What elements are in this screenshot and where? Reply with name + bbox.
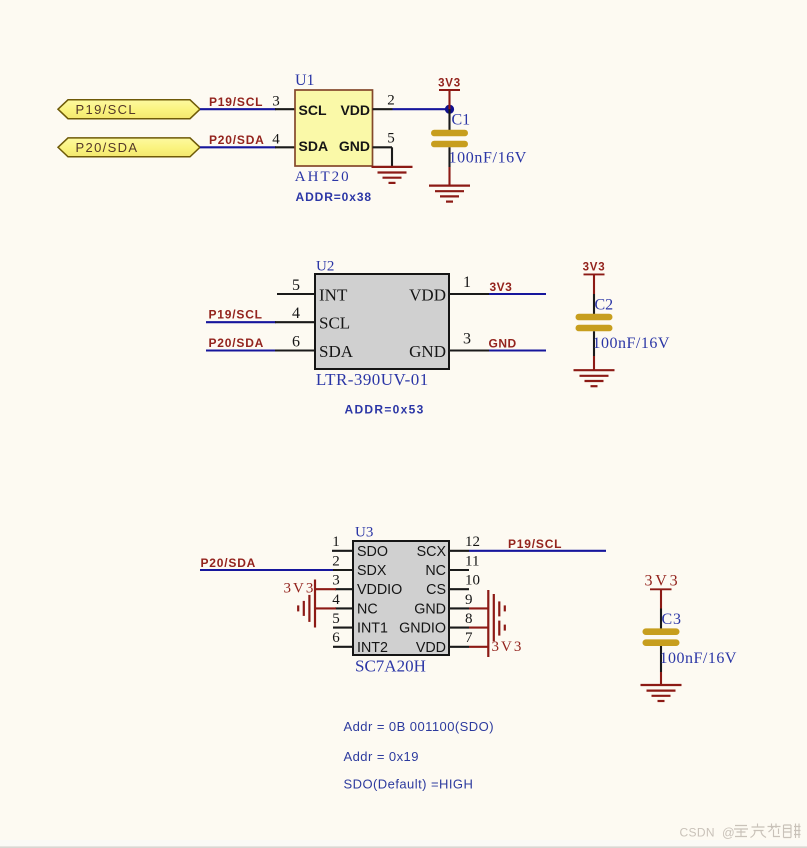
svg-text:LTR-390UV-01: LTR-390UV-01	[316, 370, 429, 389]
svg-text:3: 3	[463, 331, 471, 348]
svg-text:GNDIO: GNDIO	[399, 621, 446, 637]
svg-text:GND: GND	[489, 337, 517, 351]
svg-text:P19/SCL: P19/SCL	[209, 95, 263, 109]
svg-text:3: 3	[332, 573, 340, 589]
svg-text:8: 8	[465, 611, 473, 627]
svg-text:VDD: VDD	[409, 286, 446, 305]
svg-text:@: @	[722, 826, 735, 840]
svg-text:5: 5	[332, 611, 340, 627]
svg-text:CS: CS	[426, 582, 446, 598]
svg-text:12: 12	[465, 534, 480, 550]
svg-text:VDD: VDD	[416, 640, 446, 656]
svg-text:Addr = 0x19: Addr = 0x19	[344, 749, 419, 764]
svg-text:11: 11	[465, 553, 479, 569]
svg-text:NC: NC	[425, 563, 446, 579]
svg-text:SDA: SDA	[299, 138, 329, 154]
svg-text:3V3: 3V3	[492, 639, 524, 655]
svg-text:C1: C1	[452, 112, 471, 129]
svg-text:2: 2	[332, 553, 340, 569]
svg-text:5: 5	[387, 130, 395, 146]
svg-text:SDA: SDA	[319, 342, 354, 361]
svg-text:3V3: 3V3	[583, 262, 606, 274]
svg-text:P20/SDA: P20/SDA	[209, 336, 265, 350]
svg-text:10: 10	[465, 573, 480, 589]
svg-text:SC7A20H: SC7A20H	[355, 657, 426, 676]
svg-text:4: 4	[332, 592, 340, 608]
svg-text:C3: C3	[662, 611, 682, 628]
svg-text:3: 3	[272, 94, 280, 110]
svg-text:P20/SDA: P20/SDA	[76, 140, 139, 155]
svg-text:VDDIO: VDDIO	[357, 582, 402, 598]
svg-text:P19/SCL: P19/SCL	[209, 308, 263, 322]
svg-text:GND: GND	[414, 601, 446, 617]
svg-text:3V3: 3V3	[645, 573, 681, 590]
svg-text:3V3: 3V3	[438, 77, 461, 89]
svg-text:SCX: SCX	[417, 544, 447, 560]
svg-text:100nF/16V: 100nF/16V	[449, 150, 527, 167]
svg-text:5: 5	[292, 277, 300, 294]
svg-text:SDO: SDO	[357, 544, 388, 560]
svg-text:P20/SDA: P20/SDA	[201, 556, 257, 570]
svg-text:7: 7	[465, 630, 473, 646]
svg-text:VDD: VDD	[340, 102, 370, 118]
svg-text:P19/SCL: P19/SCL	[508, 537, 562, 551]
svg-text:3V3: 3V3	[490, 280, 513, 294]
svg-text:SCL: SCL	[319, 314, 350, 333]
svg-text:INT2: INT2	[357, 640, 388, 656]
svg-text:SDX: SDX	[357, 563, 387, 579]
svg-text:AHT20: AHT20	[295, 169, 351, 185]
svg-text:INT: INT	[319, 286, 348, 305]
svg-text:CSDN: CSDN	[680, 826, 715, 840]
svg-text:SDO(Default) =HIGH: SDO(Default) =HIGH	[344, 777, 474, 792]
svg-text:GND: GND	[409, 342, 446, 361]
svg-text:4: 4	[292, 305, 300, 322]
svg-text:6: 6	[292, 334, 300, 351]
svg-text:100nF/16V: 100nF/16V	[593, 335, 670, 352]
svg-text:INT1: INT1	[357, 621, 388, 637]
svg-text:9: 9	[465, 592, 473, 608]
svg-text:P19/SCL: P19/SCL	[76, 102, 137, 117]
svg-text:2: 2	[387, 92, 395, 108]
svg-text:U2: U2	[316, 258, 334, 274]
svg-text:3V3: 3V3	[284, 580, 316, 596]
svg-text:ADDR=0x53: ADDR=0x53	[345, 403, 425, 417]
svg-text:GND: GND	[339, 138, 370, 154]
svg-text:NC: NC	[357, 601, 378, 617]
svg-text:1: 1	[332, 534, 340, 550]
svg-text:4: 4	[272, 132, 280, 148]
svg-text:P20/SDA: P20/SDA	[209, 133, 265, 147]
svg-text:1: 1	[463, 274, 471, 291]
svg-text:C2: C2	[595, 297, 614, 314]
svg-text:SCL: SCL	[299, 102, 327, 118]
svg-text:Addr = 0B 001100(SDO): Addr = 0B 001100(SDO)	[344, 719, 494, 734]
svg-text:100nF/16V: 100nF/16V	[660, 650, 737, 667]
svg-text:U1: U1	[295, 72, 315, 89]
svg-text:ADDR=0x38: ADDR=0x38	[296, 190, 372, 204]
svg-text:U3: U3	[355, 525, 373, 541]
svg-text:6: 6	[332, 630, 340, 646]
